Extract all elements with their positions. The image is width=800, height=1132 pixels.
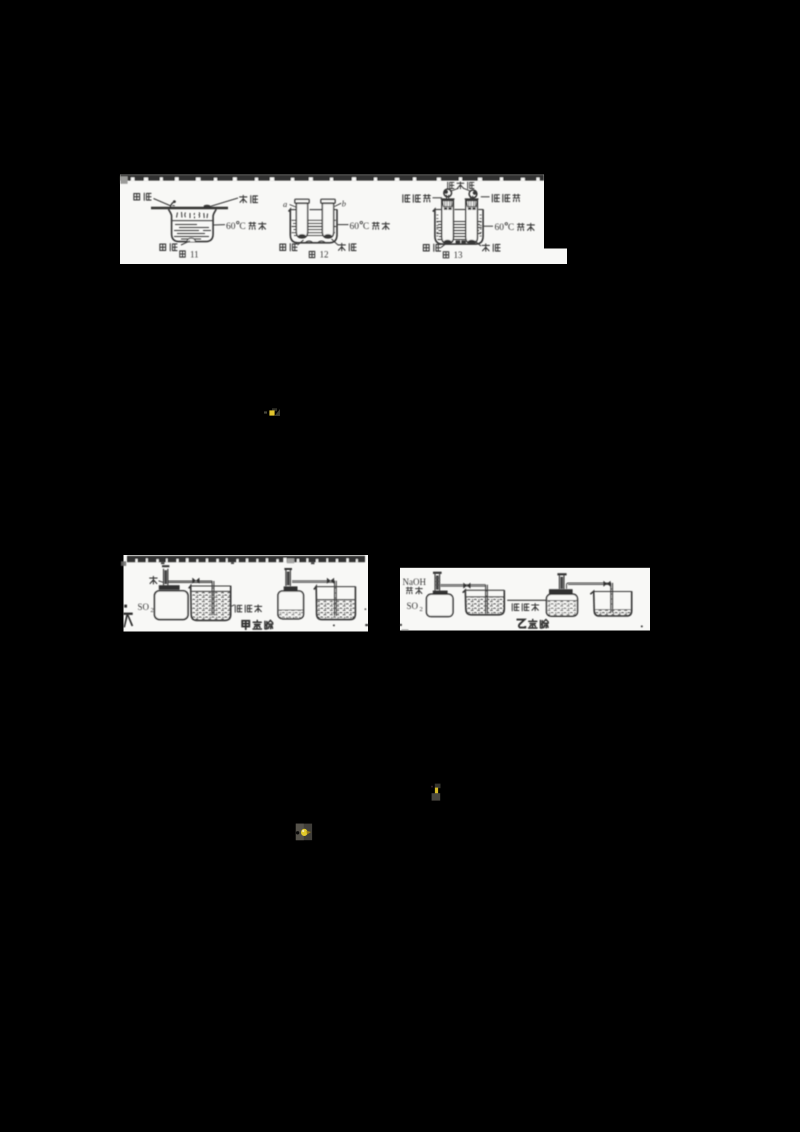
- label white phosphorus bottom fig11: [160, 241, 190, 251]
- small marks block2 edges: [333, 608, 368, 626]
- glass tube and balloon left fig13: [444, 189, 452, 200]
- test tube left fig13: [441, 199, 455, 243]
- svg-text:60: 60: [350, 222, 360, 232]
- svg-text:SO: SO: [138, 602, 150, 612]
- label white phosphorus fig13: [423, 241, 449, 252]
- label white phosphorus fig12: [280, 240, 304, 251]
- label glass tube right fig13: [481, 194, 520, 202]
- test tube b fig12: [321, 199, 335, 238]
- label red phosphorus top-right fig11: [210, 195, 258, 206]
- yellow speck 3 on black field: [431, 784, 440, 801]
- bottom curls fig12: [305, 241, 326, 243]
- svg-text:b: b: [342, 199, 346, 209]
- yellow speck 2 on black field: [296, 824, 312, 841]
- yellow speck 1 on black field: [264, 408, 280, 416]
- label red phosphorus fig12: [332, 239, 357, 251]
- label SO2 yi: [407, 601, 423, 613]
- label glass tube left fig13: [403, 195, 442, 203]
- test tube a fig12: [295, 199, 309, 238]
- label 60C hot water fig13: [483, 223, 534, 233]
- burning white phosphorus flame fig11: [170, 200, 175, 207]
- svg-text:60: 60: [226, 222, 236, 232]
- label 60C hot water fig11: [213, 221, 266, 231]
- white scanned block 1 (figures 11-13): [120, 175, 567, 265]
- label 60C hot water fig12: [338, 221, 390, 231]
- svg-text:a: a: [283, 199, 287, 209]
- label deflated balloons fig13: [448, 182, 474, 191]
- liquid in bottle2 jia: [279, 610, 303, 618]
- label NaOH solution yi: [403, 577, 427, 594]
- delivery tube bottle2 to beaker2 yi: [567, 581, 613, 613]
- test tube right fig13: [465, 199, 479, 243]
- beaker fig12: [289, 209, 338, 242]
- water hatch lines fig12: [292, 220, 337, 235]
- white scanned block 2 (experiment jia): [124, 555, 369, 632]
- caption fig13: [443, 250, 463, 260]
- svg-text:12: 12: [320, 250, 329, 260]
- rubber stopper bottle1 yi: [433, 591, 448, 598]
- water surface line fig11: [172, 220, 213, 222]
- liquid in bottle2 yi: [548, 601, 578, 616]
- svg-text:13: 13: [454, 250, 464, 260]
- label white phosphorus top-left fig11: [134, 193, 171, 206]
- label SO2 jia: [138, 602, 154, 614]
- caption fig12: [309, 250, 328, 260]
- gas bottle1 SO2 yi: [427, 594, 454, 616]
- label b fig12: [335, 199, 347, 209]
- glass tube and balloon right fig13: [469, 190, 477, 200]
- caption yi experiment: [517, 619, 549, 628]
- delivery tube bottle1 to beaker1 jia: [168, 578, 214, 616]
- water hatch lines fig11: [174, 225, 211, 240]
- svg-text:2: 2: [151, 607, 154, 614]
- beaker fig13: [433, 209, 483, 244]
- syringe on bottle2 yi: [557, 574, 566, 589]
- copper plate fig11: [151, 207, 228, 209]
- water hatch lines fig13: [437, 222, 482, 240]
- svg-text:60: 60: [495, 223, 505, 233]
- gas bottle2 yi: [547, 594, 578, 616]
- svg-text:C: C: [363, 222, 369, 232]
- syringe on bottle2 jia: [284, 569, 292, 586]
- wall tick marks fig13: [436, 215, 481, 236]
- svg-text:C: C: [239, 222, 245, 232]
- beaker1 yi: [463, 590, 505, 615]
- rubber stopper bottle1 jia: [159, 585, 180, 593]
- rubber stopper bottle2 jia: [284, 586, 298, 593]
- svg-text:SO: SO: [407, 601, 419, 611]
- white scanned block 3 (experiment yi): [400, 568, 650, 631]
- label a fig12: [283, 199, 297, 209]
- svg-text:2: 2: [420, 606, 423, 613]
- beaker2 yi: [590, 591, 631, 616]
- delivery tube bottle2 to beaker2 jia: [292, 578, 336, 616]
- label water jia: [150, 576, 164, 583]
- beaker fig11: [169, 209, 217, 241]
- block2 clipped text band: [127, 556, 365, 564]
- caption jia experiment: [242, 620, 273, 629]
- gray corner nub block2: [121, 561, 126, 566]
- block1 gray corner square: [120, 176, 127, 183]
- caption fig11: [180, 249, 199, 259]
- syringe on bottle1 yi: [433, 573, 442, 591]
- gas bottle1 SO2 jia: [155, 591, 189, 620]
- partial character at left edge block2: [124, 605, 134, 628]
- dark lumps on beaker floor fig13: [456, 240, 466, 243]
- white phosphorus lump at beaker bottom fig11: [187, 238, 195, 241]
- svg-text:11: 11: [190, 249, 199, 259]
- small marks block3 edges: [400, 624, 643, 631]
- beaker rim segments fig12: [290, 209, 337, 211]
- beaker2 jia: [314, 586, 356, 619]
- label vegetable oil yi: [507, 600, 548, 610]
- svg-text:C: C: [508, 223, 514, 233]
- syringe on bottle1 jia: [162, 566, 169, 585]
- beaker1 jia: [189, 586, 231, 621]
- red phosphorus on plate fig11: [204, 205, 211, 208]
- beaker rim segments fig13: [435, 209, 483, 211]
- gas bottle2 jia: [278, 591, 304, 619]
- block1 clipped text band: [120, 175, 544, 181]
- svg-text:NaOH: NaOH: [403, 577, 427, 587]
- ripple marks above water fig11: [177, 212, 208, 218]
- label vegetable oil jia: [231, 605, 262, 612]
- delivery tube bottle1 to beaker1 yi: [441, 583, 488, 614]
- rubber stopper bottle2 yi: [549, 589, 573, 597]
- label red phosphorus fig13: [475, 241, 501, 252]
